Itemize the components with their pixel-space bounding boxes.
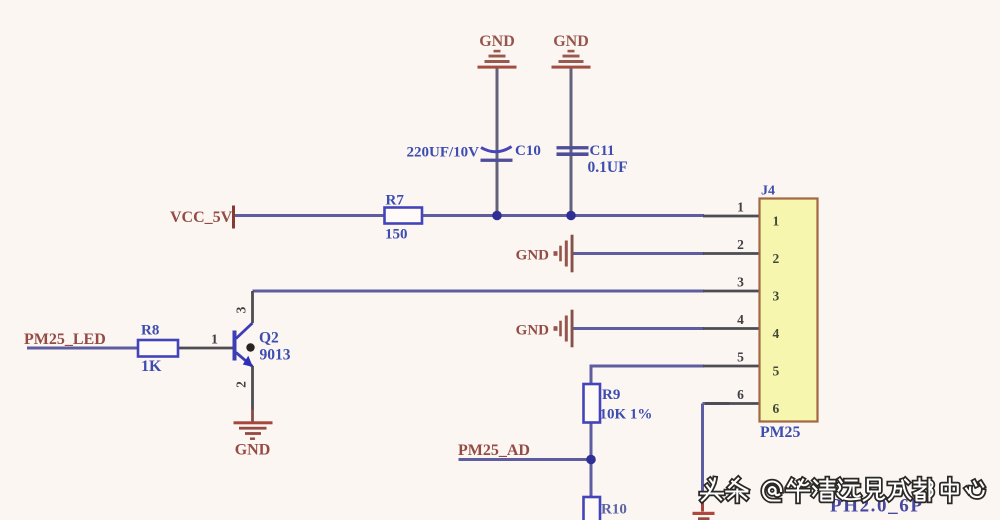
svg-text:2: 2	[773, 251, 780, 266]
svg-text:Q2: Q2	[259, 330, 279, 347]
svg-text:1: 1	[737, 200, 744, 215]
svg-text:GND: GND	[516, 248, 550, 264]
svg-text:220UF/10V: 220UF/10V	[407, 145, 480, 161]
svg-text:10K 1%: 10K 1%	[600, 407, 653, 423]
svg-text:PM25_LED: PM25_LED	[24, 331, 106, 348]
svg-text:5: 5	[773, 364, 780, 379]
svg-text:C11: C11	[590, 143, 615, 159]
svg-text:4: 4	[737, 312, 744, 327]
svg-text:3: 3	[737, 275, 744, 290]
svg-text:5: 5	[737, 350, 744, 365]
svg-text:2: 2	[737, 237, 744, 252]
svg-text:R7: R7	[386, 193, 405, 209]
svg-text:R8: R8	[141, 323, 159, 339]
svg-text:1: 1	[211, 333, 218, 348]
svg-text:6: 6	[737, 387, 744, 402]
svg-text:R10: R10	[601, 502, 627, 518]
svg-text:GND: GND	[553, 33, 589, 50]
svg-text:J4: J4	[761, 184, 775, 199]
svg-text:R9: R9	[602, 387, 620, 403]
svg-text:6: 6	[773, 401, 780, 416]
svg-text:PM25: PM25	[760, 424, 800, 441]
svg-text:4: 4	[773, 326, 780, 341]
svg-text:1K: 1K	[141, 358, 162, 375]
svg-text:VCC_5V: VCC_5V	[170, 209, 233, 226]
svg-text:GND: GND	[235, 442, 271, 459]
svg-text:GND: GND	[516, 323, 550, 339]
svg-text:3: 3	[773, 289, 780, 304]
svg-text:0.1UF: 0.1UF	[588, 159, 628, 176]
svg-text:C10: C10	[515, 143, 541, 159]
svg-text:1: 1	[773, 214, 780, 229]
svg-text:3: 3	[234, 306, 249, 313]
svg-text:150: 150	[385, 227, 408, 243]
svg-text:PM25_AD: PM25_AD	[458, 442, 530, 459]
svg-text:GND: GND	[479, 33, 515, 50]
svg-text:9013: 9013	[260, 347, 291, 364]
svg-text:2: 2	[234, 381, 249, 388]
